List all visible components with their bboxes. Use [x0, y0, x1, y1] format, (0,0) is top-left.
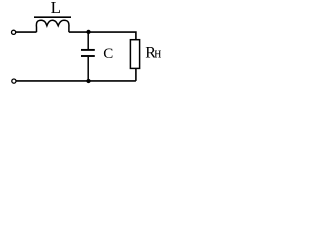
svg-text:н: н — [154, 46, 161, 62]
svg-text:L: L — [51, 0, 61, 17]
svg-text:C: C — [103, 46, 113, 62]
